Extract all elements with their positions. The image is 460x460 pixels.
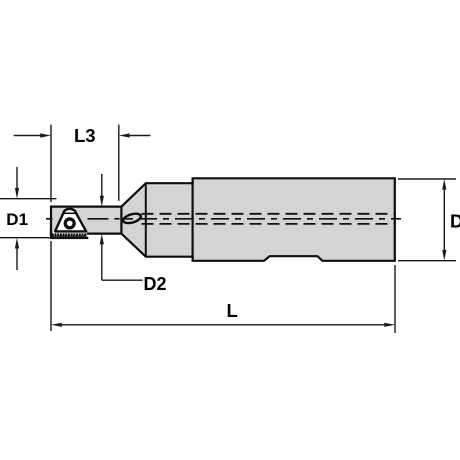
mid-cylinder/shank step edge (192, 178, 194, 260)
dimension L3: left extension line (head face) (50, 125, 52, 202)
dimension D1: top arrow (16, 167, 18, 189)
dimension D2: top arrow (101, 174, 103, 196)
taper/mid-cylinder junction edge (145, 183, 147, 257)
dimension L3: left arrow (14, 135, 41, 137)
dimension D1: upper extension line (0, 198, 57, 200)
dimension L: line with arrows (62, 324, 384, 326)
svg-text:L: L (227, 300, 238, 321)
insert shoulder chord line (63, 212, 76, 214)
dimension D1: lower extension line (0, 237, 60, 239)
tool body outline (head, neck, taper, mid cylinder, shank with notch) (51, 178, 395, 260)
threading insert (trapezoid with dome) (55, 209, 86, 232)
svg-text:D1: D1 (6, 210, 28, 229)
insert serration teeth (50, 230, 88, 239)
coolant exit ellipse on taper (122, 212, 142, 225)
dimension L3: right arrow (130, 135, 151, 137)
svg-text:D: D (450, 210, 460, 231)
dimension D: vertical line with arrows (443, 190, 445, 250)
white mask under head for insert serration area (52, 231, 87, 239)
dimension D: bottom extension line (398, 260, 456, 262)
dimension L: right extension line (394, 265, 396, 333)
neck/taper junction edge (120, 207, 122, 234)
dimension D1: bottom arrow (16, 248, 18, 270)
insert clamp screw (ring) (64, 217, 76, 229)
dimension L3: right extension line (neck end) (118, 125, 120, 201)
dark strip under serration tips (50, 237, 88, 239)
centerline (tool axis) (46, 218, 401, 220)
dimension D: top extension line (398, 178, 456, 180)
coolant bore hidden line lower (142, 223, 395, 225)
svg-text:L3: L3 (74, 125, 96, 146)
svg-text:D2: D2 (144, 274, 167, 294)
dimension L: left extension line (50, 241, 52, 331)
dimension D2: bottom arrow and leader (101, 244, 103, 280)
coolant bore hidden line upper (142, 213, 395, 215)
